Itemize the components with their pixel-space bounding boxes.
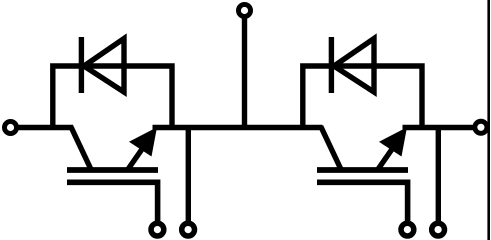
- IGBT Q1 emitter arrowhead: [129, 127, 157, 156]
- IGBT Q1 collector slant: [71, 127, 92, 171]
- diode D2 cathode bar: [329, 37, 334, 93]
- wire emitter 2 aux lead: [436, 128, 441, 223]
- terminal T3 (right emitter): [475, 121, 487, 133]
- IGBT Q2 emitter arrowhead: [379, 127, 407, 156]
- terminal T2 (top, E1/C2 node): [238, 4, 250, 16]
- wire bus E1-C2: [153, 125, 323, 130]
- diode D2 triangle: [334, 39, 374, 93]
- diode D1 cathode bar: [79, 37, 84, 93]
- IGBT Q2 gate plate and gate lead: [317, 182, 408, 222]
- IGBT Q2 emitter arrow shaft: [378, 142, 398, 170]
- gate terminal G1: [151, 223, 164, 236]
- IGBT Q2 body bar: [317, 167, 408, 173]
- diode D1 branch wire: [53, 66, 172, 130]
- diode D2 branch wire: [303, 66, 422, 130]
- terminal T1 (left collector): [4, 121, 16, 133]
- diode D1 triangle: [84, 39, 124, 93]
- terminal E1 (aux emitter): [182, 223, 195, 236]
- IGBT Q2 collector slant: [321, 127, 342, 171]
- wire top terminal lead: [242, 16, 247, 130]
- gate terminal G2: [401, 223, 414, 236]
- IGBT Q1 emitter arrow shaft: [128, 142, 148, 170]
- wire collector 1: [16, 125, 74, 130]
- wire emitter 1 aux lead: [186, 128, 191, 223]
- wire emitter 2 to right terminal: [403, 125, 478, 130]
- IGBT Q1 gate plate and gate lead: [67, 182, 158, 222]
- terminal E2 (aux emitter): [432, 223, 445, 236]
- IGBT Q1 body bar: [67, 167, 158, 173]
